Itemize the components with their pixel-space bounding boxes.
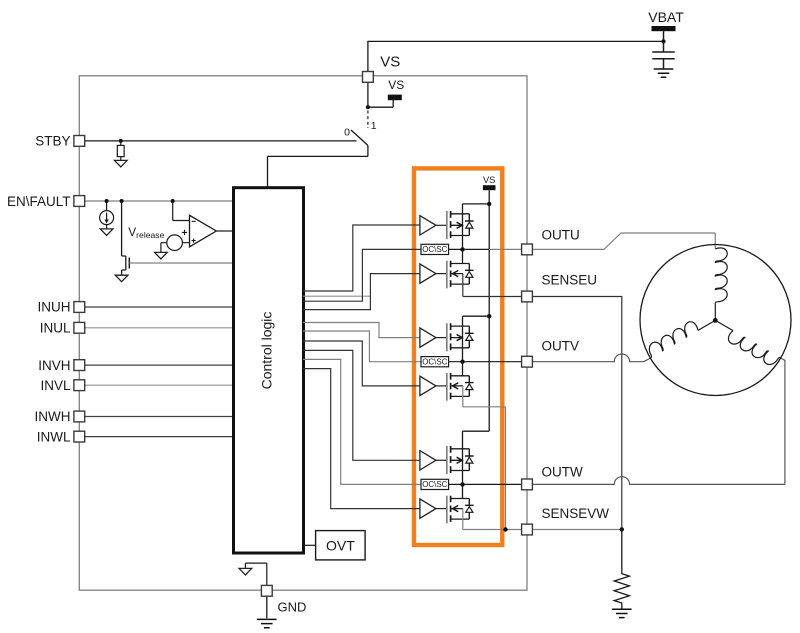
svg-text:GND: GND <box>278 600 307 615</box>
svg-text:INUH: INUH <box>38 300 71 315</box>
svg-text:VS: VS <box>388 78 404 92</box>
svg-text:Vrelease: Vrelease <box>128 225 164 240</box>
svg-text:OUTU: OUTU <box>542 228 580 243</box>
svg-text:STBY: STBY <box>35 134 70 149</box>
svg-text:VS: VS <box>483 175 495 185</box>
svg-text:SENSEVW: SENSEVW <box>542 506 610 521</box>
svg-text:OUTW: OUTW <box>542 465 583 480</box>
svg-text:OUTV: OUTV <box>542 338 580 353</box>
svg-text:1: 1 <box>371 120 377 132</box>
svg-text:INVH: INVH <box>38 358 70 373</box>
svg-text:INUL: INUL <box>40 320 71 335</box>
svg-text:INVL: INVL <box>40 378 71 393</box>
svg-text:VS: VS <box>380 54 400 71</box>
svg-text:VBAT: VBAT <box>648 9 684 25</box>
svg-text:EN\FAULT: EN\FAULT <box>7 194 71 209</box>
svg-text:0: 0 <box>344 127 350 139</box>
svg-text:INWL: INWL <box>37 429 71 444</box>
svg-text:INWH: INWH <box>35 409 71 424</box>
svg-text:SENSEU: SENSEU <box>542 272 598 287</box>
svg-text:Control logic: Control logic <box>258 312 274 390</box>
svg-text:OVT: OVT <box>326 538 355 554</box>
